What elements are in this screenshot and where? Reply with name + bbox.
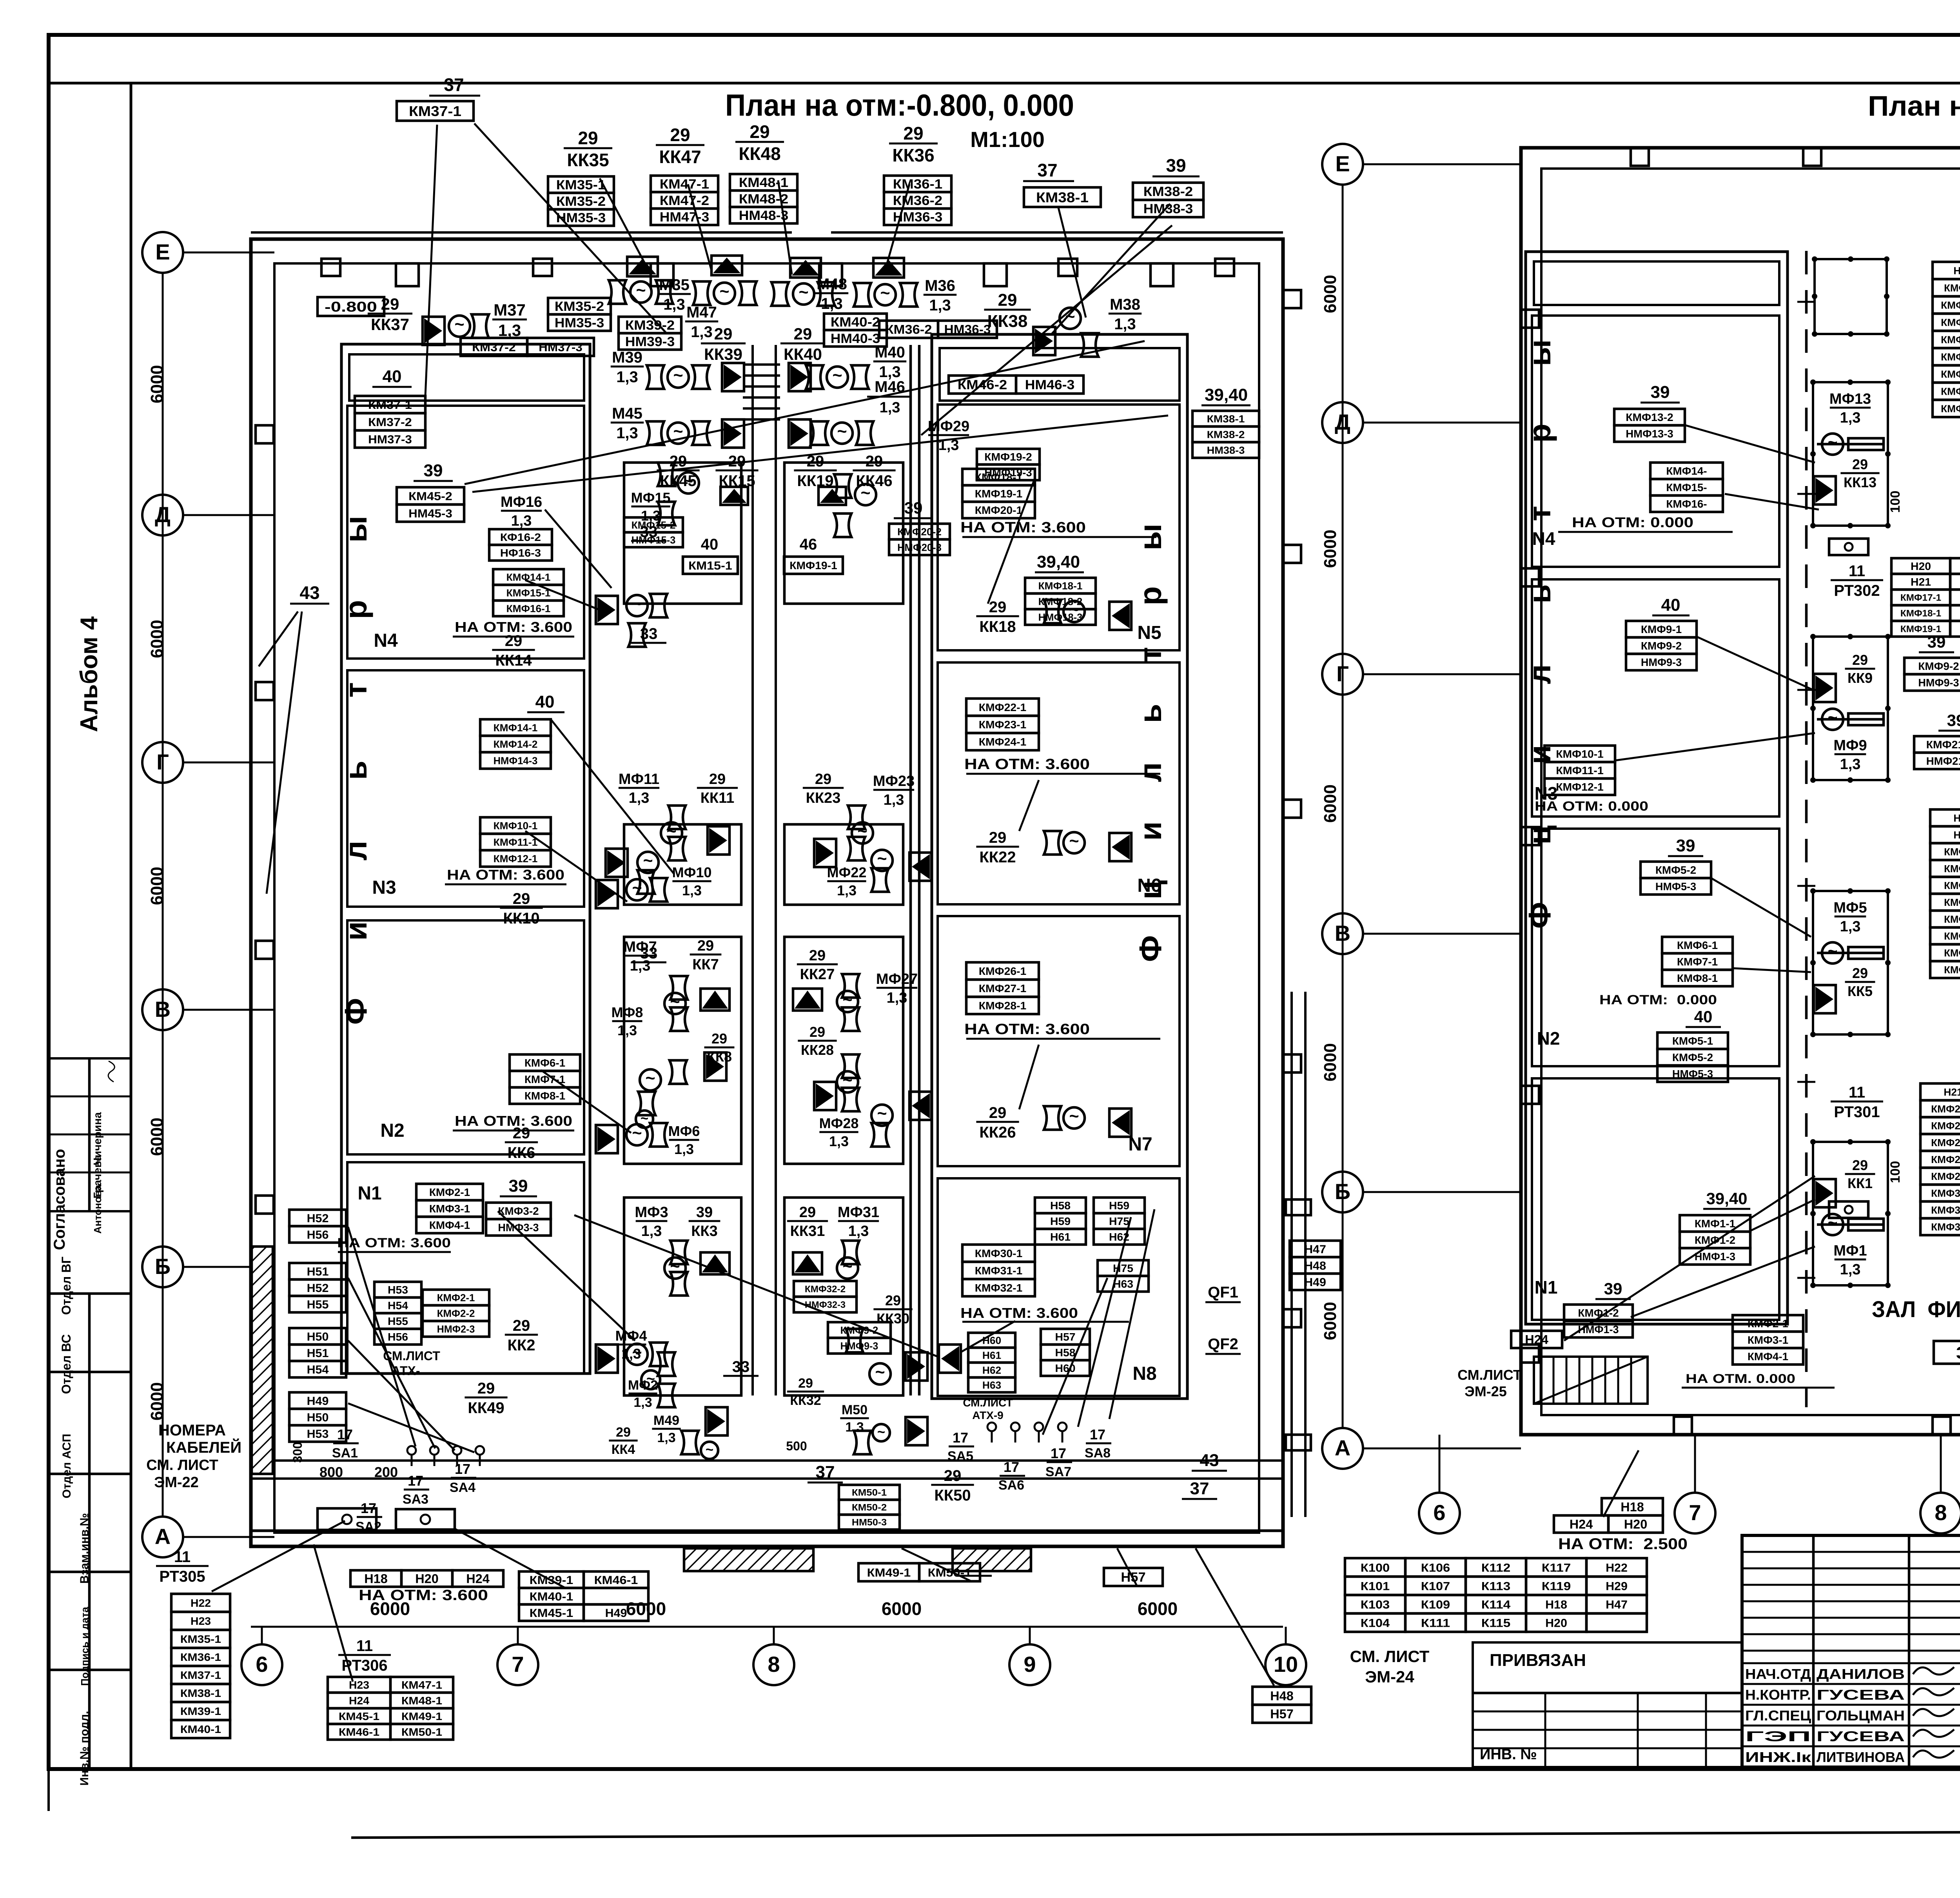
duct rungs stairwell [743,363,780,366]
svg-text:НА ОТМ: 3.600: НА ОТМ: 3.600 [960,519,1086,536]
svg-text:КМФ18-1: КМФ18-1 [1038,580,1083,592]
svg-text:33: 33 [640,945,658,962]
svg-text:Н20: Н20 [1624,1517,1648,1531]
svg-text:КМ38-1: КМ38-1 [180,1687,221,1699]
svg-text:М38: М38 [1110,296,1140,313]
svg-text:М40: М40 [875,344,905,361]
svg-text:~: ~ [719,282,729,301]
svg-text:КМФ20-1: КМФ20-1 [975,504,1023,516]
svg-text:Н56: Н56 [307,1228,329,1241]
svg-text:6000: 6000 [1321,1043,1340,1081]
svg-text:Н60: Н60 [982,1334,1001,1346]
N8 stack KMF30 [962,1245,1035,1262]
svg-text:КК10: КК10 [503,910,539,927]
svg-text:ь: ь [1522,584,1557,603]
svg-text:Н24: Н24 [466,1572,490,1586]
svg-text:КМФ26-1: КМФ26-1 [1931,1120,1960,1132]
svg-text:40: 40 [1694,1007,1713,1026]
svg-text:1,3: 1,3 [617,1022,637,1038]
right plan room N1 [1532,1078,1779,1320]
svg-text:11: 11 [1849,563,1865,580]
svg-text:КМФ31-1: КМФ31-1 [975,1265,1023,1277]
svg-text:т: т [1522,506,1557,521]
inner frame left line [130,83,132,1769]
svg-text:7: 7 [512,1652,524,1677]
svg-text:МФ2: МФ2 [628,1378,658,1393]
plinth outlines corridor [624,824,741,905]
svg-text:10: 10 [1274,1652,1298,1677]
svg-text:КК49: КК49 [468,1399,504,1417]
svg-text:КМ39-2: КМ39-2 [625,318,675,333]
svg-text:6000: 6000 [1321,530,1340,568]
svg-text:Н23: Н23 [191,1615,211,1627]
svg-text:НМФ5-3: НМФ5-3 [1655,880,1696,893]
svg-text:29: 29 [989,829,1007,846]
stack KM50 [839,1485,900,1500]
labels KM40-2 NM40-3 [824,314,887,330]
svg-text:К104: К104 [1361,1617,1390,1629]
svg-text:1,3: 1,3 [1114,316,1136,333]
svg-text:КМФ13-2: КМФ13-2 [1626,411,1673,423]
room N5 [940,348,1180,401]
svg-text:ц: ц [1522,825,1557,844]
svg-text:6000: 6000 [1321,784,1340,823]
svg-text:N2: N2 [1537,1028,1560,1049]
svg-text:6000: 6000 [147,1118,167,1156]
svg-text:КМ36-1: КМ36-1 [893,177,942,192]
filter unit МФ9 [1813,637,1888,780]
svg-text:КМФ28-1: КМФ28-1 [1931,1154,1960,1165]
leader lines right plan [1686,425,1815,463]
svg-text:КМФ3-1: КМФ3-1 [429,1203,470,1215]
svg-text:SA4: SA4 [450,1480,475,1495]
svg-text:МФ10: МФ10 [672,864,712,880]
svg-text:N1: N1 [1535,1277,1558,1297]
svg-text:SA8: SA8 [1085,1446,1111,1461]
svg-text:Н55: Н55 [388,1315,408,1327]
svg-text:КМ36-2: КМ36-2 [893,193,942,208]
svg-text:НА ОТМ: 2.500: НА ОТМ: 2.500 [1558,1535,1688,1553]
right plan grid axis letters [1322,144,1363,185]
svg-text:СМ.ЛИСТ: СМ.ЛИСТ [383,1349,440,1363]
svg-text:К112: К112 [1481,1561,1510,1574]
svg-text:М45: М45 [612,405,642,422]
svg-text:1,3: 1,3 [629,790,650,806]
rp N2 KMF6-8 [1662,937,1733,953]
svg-text:КК38: КК38 [987,312,1028,331]
svg-text:Н56: Н56 [388,1331,408,1343]
svg-text:29: 29 [794,325,812,343]
svg-text:РТ302: РТ302 [1834,582,1880,599]
svg-text:КМФ14-1: КМФ14-1 [494,722,538,733]
svg-text:Н59: Н59 [1050,1215,1071,1227]
svg-text:КМ15-1: КМ15-1 [688,559,732,572]
svg-text:ь: ь [1133,704,1168,723]
svg-text:1,3: 1,3 [887,990,907,1006]
svg-text:КК28: КК28 [801,1042,834,1058]
N5 pumps [1109,602,1131,630]
svg-text:КМФ15-1: КМФ15-1 [1941,385,1960,397]
svg-text:КМФ5-1: КМФ5-1 [1672,1035,1713,1047]
svg-text:МФ9: МФ9 [1833,737,1867,754]
left plan top parapet lines [251,231,792,234]
svg-text:НМ47-3: НМ47-3 [660,210,709,225]
svg-text:29: 29 [750,122,769,142]
svg-text:КМФ9-1: КМФ9-1 [1944,282,1960,294]
svg-text:1,3: 1,3 [1840,756,1861,773]
svg-text:К114: К114 [1481,1598,1511,1611]
svg-text:ы: ы [1522,339,1557,366]
svg-text:39: 39 [509,1176,528,1196]
svg-text:НА ОТМ: 3.600: НА ОТМ: 3.600 [359,1587,488,1604]
svg-text:Н18: Н18 [364,1572,388,1586]
N1 H53 table [374,1282,421,1297]
svg-text:КМФ4-1: КМФ4-1 [1944,896,1960,908]
svg-text:КМФ5-2: КМФ5-2 [1672,1051,1713,1063]
svg-text:КК14: КК14 [495,652,532,669]
svg-text:ь: ь [338,760,373,780]
room N3 [347,670,584,907]
svg-text:29: 29 [809,947,826,964]
right plan rooms header strip [1534,261,1779,305]
svg-text:КМФ10-1: КМФ10-1 [494,820,538,831]
svg-text:33: 33 [640,523,658,541]
N3 stack KMF14 [480,719,551,736]
svg-text:НА ОТМ: 0.000: НА ОТМ: 0.000 [1599,993,1717,1007]
svg-text:~: ~ [1828,433,1837,452]
svg-text:КМФ27-1: КМФ27-1 [979,982,1027,994]
svg-text:КМФ15-: КМФ15- [1666,481,1707,494]
svg-text:КМФ5-1: КМФ5-1 [1944,913,1960,925]
small junction boxes under units row3 [1829,1201,1868,1218]
svg-text:КМ39-1: КМ39-1 [180,1705,221,1717]
svg-text:КК18: КК18 [979,618,1016,635]
leader lines bottom [212,1521,345,1591]
svg-text:НМ35-3: НМ35-3 [556,210,606,225]
N8 H57 H58 H60 [1041,1329,1090,1345]
svg-text:39: 39 [904,499,923,517]
svg-text:КМФ18-1: КМФ18-1 [1900,608,1941,619]
label KM37-2 NM37-3 strip [461,338,527,356]
svg-text:НА ОТМ: 0.000: НА ОТМ: 0.000 [1535,799,1648,814]
svg-text:р: р [338,600,373,619]
svg-text:НА ОТМ. 0.000: НА ОТМ. 0.000 [1686,1372,1795,1386]
svg-text:НМФ5-3: НМФ5-3 [1672,1068,1713,1080]
svg-text:КК2: КК2 [507,1337,535,1354]
svg-text:КМ35-1: КМ35-1 [180,1633,221,1645]
svg-text:Ф: Ф [338,998,373,1025]
svg-text:Отдел ВГ: Отдел ВГ [59,1257,73,1315]
N7 stack KMF26 [966,962,1039,980]
svg-text:~: ~ [454,315,464,334]
svg-text:29: 29 [815,771,831,788]
svg-text:МФ5: МФ5 [1833,900,1867,916]
svg-text:КМФ6-1: КМФ6-1 [1677,939,1718,951]
svg-text:КМФ12-1: КМФ12-1 [494,853,538,864]
svg-text:~: ~ [877,1424,885,1440]
svg-text:SA6: SA6 [998,1478,1024,1493]
svg-text:ИНЖ.Iк: ИНЖ.Iк [1745,1749,1811,1765]
leader lines left plan top [474,123,666,333]
svg-text:39: 39 [696,1204,713,1221]
svg-text:КМФ16-: КМФ16- [1666,498,1707,510]
svg-text:29: 29 [697,938,714,954]
svg-text:План на отм:-0.800, 0.000: План на отм:-0.800, 0.000 [725,88,1074,122]
long thin bottom line [351,1832,1960,1838]
labels KMF19-2 [977,449,1040,465]
svg-text:29: 29 [513,1125,530,1142]
svg-text:100: 100 [1888,1161,1903,1183]
svg-text:М47: М47 [686,304,717,321]
svg-text:КМФ4-1: КМФ4-1 [1748,1350,1788,1363]
svg-text:6000: 6000 [147,867,167,905]
svg-text:КК30: КК30 [877,1310,909,1326]
svg-text:43: 43 [299,582,319,603]
svg-text:КМФ2-2: КМФ2-2 [437,1307,475,1319]
svg-text:29: 29 [998,290,1017,310]
svg-text:SA3: SA3 [403,1492,428,1507]
svg-text:НМ40-3: НМ40-3 [831,331,880,346]
svg-text:Н18: Н18 [1953,812,1960,824]
svg-text:Н58: Н58 [1055,1346,1075,1359]
svg-text:29: 29 [989,1104,1007,1121]
N4 pumps [596,596,618,624]
svg-text:ГОЛЬЦМАН: ГОЛЬЦМАН [1817,1707,1905,1724]
svg-text:Н19: Н19 [1953,265,1960,276]
svg-text:29: 29 [903,123,923,143]
svg-text:КМФ4-1: КМФ4-1 [429,1219,470,1231]
svg-text:6: 6 [1433,1500,1445,1525]
svg-text:КК22: КК22 [979,849,1016,866]
svg-text:Н50: Н50 [307,1411,329,1424]
svg-text:~: ~ [1828,708,1837,727]
svg-text:К113: К113 [1481,1580,1510,1593]
svg-text:N5: N5 [1137,622,1161,643]
svg-text:КК13: КК13 [1844,474,1877,490]
svg-text:КК11: КК11 [701,790,735,806]
label KM46-2 NM46-3 [949,376,1016,394]
svg-text:Н53: Н53 [307,1428,329,1441]
H18 H24 H20 boxes [1602,1498,1663,1515]
svg-text:КМФ10-1: КМФ10-1 [1556,748,1604,760]
svg-text:М49: М49 [653,1413,679,1428]
svg-text:КМФ31-1: КМФ31-1 [1931,1204,1960,1216]
svg-text:КК48: КК48 [739,143,780,164]
svg-text:29: 29 [513,890,530,907]
right plan room N2 [1532,829,1779,1066]
svg-text:КФ16-2: КФ16-2 [500,531,541,543]
table KM49-1 KM50-1 [858,1563,919,1581]
svg-text:КМФ7-1: КМФ7-1 [1677,956,1718,968]
svg-text:Отдел АСП: Отдел АСП [60,1434,73,1499]
svg-text:Н75: Н75 [1109,1215,1129,1227]
left plan wall pilasters [396,263,419,286]
svg-text:~: ~ [877,849,887,868]
svg-text:~: ~ [877,1104,887,1123]
svg-text:КМФ30-1: КМФ30-1 [975,1247,1023,1259]
svg-text:СМ. ЛИСТ: СМ. ЛИСТ [146,1457,218,1473]
H49 H50 H53 boxes [289,1392,346,1409]
svg-text:ГУСЕВА: ГУСЕВА [1817,1728,1905,1744]
svg-text:А: А [1335,1435,1350,1460]
svg-text:29: 29 [798,1376,813,1391]
svg-text:1,3: 1,3 [884,792,904,808]
svg-text:л: л [1133,762,1168,782]
svg-text:КМ47-1: КМ47-1 [401,1679,442,1691]
svg-text:~: ~ [860,484,870,503]
svg-text:Н24: Н24 [1525,1333,1548,1347]
svg-text:SA7: SA7 [1045,1464,1071,1479]
svg-text:17: 17 [1090,1426,1105,1443]
mid table H20 H21 KMF17-24 [1891,558,1950,574]
svg-text:~: ~ [643,851,653,870]
svg-text:КМФ11-1: КМФ11-1 [1941,316,1960,328]
svg-text:Н18: Н18 [1621,1500,1644,1514]
svg-text:КМФ25-1: КМФ25-1 [1931,1103,1960,1115]
svg-text:КМФ8-1: КМФ8-1 [1944,964,1960,976]
svg-text:39,40: 39,40 [1706,1189,1747,1208]
svg-text:Н24: Н24 [349,1695,370,1707]
svg-text:N2: N2 [380,1120,404,1141]
svg-text:11: 11 [174,1548,191,1566]
svg-text:Н49: Н49 [1304,1276,1326,1289]
svg-text:КМ50-1: КМ50-1 [852,1488,887,1498]
svg-text:1,3: 1,3 [511,513,532,529]
svg-text:17: 17 [1051,1445,1066,1461]
svg-text:Н22: Н22 [1606,1561,1628,1574]
svg-text:МФ23: МФ23 [873,773,915,789]
svg-text:КМ36-1: КМ36-1 [180,1651,221,1663]
svg-text:39: 39 [1927,633,1946,651]
svg-text:37: 37 [1190,1479,1209,1498]
svg-text:План на отм: 3.600: План на отм: 3.600 [1868,91,1960,122]
svg-text:~: ~ [880,284,890,303]
right plan left rooms container [1526,252,1788,1324]
svg-text:КМФ23-1: КМФ23-1 [979,719,1027,731]
svg-text:КК35: КК35 [567,150,609,170]
svg-text:МФ3: МФ3 [635,1204,668,1221]
label H24 rp [1511,1331,1562,1348]
svg-text:~: ~ [673,366,683,385]
svg-text:Н49: Н49 [307,1395,329,1408]
svg-text:РТ305: РТ305 [159,1568,205,1585]
svg-text:КМФ2-1: КМФ2-1 [1944,863,1960,875]
svg-text:КМ48-1: КМ48-1 [401,1695,442,1707]
svg-text:11: 11 [356,1637,373,1655]
svg-text:N3: N3 [372,877,396,898]
svg-text:НА ОТМ: 0.000: НА ОТМ: 0.000 [1572,514,1693,530]
svg-text:1,3: 1,3 [633,1395,652,1410]
svg-text:НМФ1-3: НМФ1-3 [1578,1323,1619,1335]
svg-text:МФ22: МФ22 [827,864,867,880]
svg-text:40: 40 [383,367,402,386]
svg-text:КМФ13-1: КМФ13-1 [1941,351,1960,363]
svg-text:КМФ3-2: КМФ3-2 [498,1205,539,1217]
svg-text:~: ~ [636,281,646,300]
svg-text:МФ27: МФ27 [876,971,918,987]
svg-text:КМ50-2: КМ50-2 [852,1502,887,1513]
svg-text:КМФ21-2: КМФ21-2 [1926,739,1960,751]
svg-text:39: 39 [1604,1279,1622,1298]
svg-text:НМФ2-3: НМФ2-3 [437,1323,475,1335]
svg-text:КМ45-1: КМ45-1 [339,1710,379,1722]
left plan inner corridor floor line [251,1459,1283,1462]
svg-text:К109: К109 [1421,1598,1450,1611]
svg-text:НМФ9-3: НМФ9-3 [1641,656,1682,668]
svg-text:SA1: SA1 [332,1446,358,1461]
svg-text:Альбом 4: Альбом 4 [76,616,103,732]
svg-text:НА ОТМ: 3.600: НА ОТМ: 3.600 [447,867,564,883]
svg-text:~: ~ [875,1363,885,1382]
svg-text:КМФ26-1: КМФ26-1 [979,965,1027,977]
row2 MF24 [814,839,836,867]
svg-text:1,3: 1,3 [663,296,685,313]
svg-text:КК32: КК32 [790,1393,821,1408]
top pump row M48 [790,258,821,278]
svg-text:КК3: КК3 [691,1223,718,1239]
svg-text:800: 800 [319,1464,343,1480]
sidebar cell otdel VG [49,1292,131,1295]
table KM39-1 KM46-1 [519,1571,584,1588]
svg-text:СМ.ЛИСТ: СМ.ЛИСТ [963,1397,1013,1409]
svg-text:и: и [338,921,373,940]
svg-text:КМ37-1: КМ37-1 [368,399,412,412]
svg-text:КМФ3-1: КМФ3-1 [1748,1334,1788,1346]
svg-text:Н54: Н54 [388,1299,408,1312]
svg-text:КМФ27-1: КМФ27-1 [1931,1137,1960,1149]
svg-text:СМ. ЛИСТ: СМ. ЛИСТ [1350,1647,1430,1666]
svg-text:Н62: Н62 [982,1364,1001,1376]
svg-text:НМ36-3: НМ36-3 [944,323,991,337]
svg-text:Н48: Н48 [1304,1259,1326,1272]
N4 stack KM37 [355,396,425,413]
tall table H19 KMF9-16 [1933,262,1960,279]
svg-text:17: 17 [953,1430,968,1446]
svg-text:КК50: КК50 [934,1487,971,1504]
svg-text:Н50: Н50 [307,1330,329,1343]
svg-text:39: 39 [1947,711,1960,729]
svg-text:29: 29 [1852,456,1868,472]
svg-text:МФ1: МФ1 [1833,1243,1867,1259]
svg-text:Н59: Н59 [1109,1199,1129,1212]
svg-text:КМ35-1: КМ35-1 [556,178,606,192]
svg-text:КМФ9-2: КМФ9-2 [1918,660,1959,672]
svg-text:НМ45-3: НМ45-3 [408,507,452,520]
svg-text:НМ39-3: НМ39-3 [625,334,675,349]
N1 pumps [596,1345,618,1373]
svg-text:Н52: Н52 [307,1212,329,1225]
svg-text:КМ38-2: КМ38-2 [1207,428,1245,440]
right plan wall pilaster tabs [1631,148,1649,166]
svg-text:29: 29 [885,1292,901,1308]
sidebar cell vzam inv [49,1571,131,1573]
left rooms column container [341,344,590,1374]
svg-text:Антонова: Антонова [92,1185,103,1234]
svg-text:М1:100: М1:100 [970,127,1045,152]
H52 H56 boxes [289,1210,346,1226]
svg-text:А: А [155,1524,171,1549]
N2 pumps [596,1125,618,1153]
svg-text:К101: К101 [1361,1580,1390,1593]
svg-text:SA5: SA5 [947,1449,973,1464]
svg-text:М36: М36 [925,277,955,294]
svg-text:~: ~ [842,1257,852,1276]
svg-text:КК36: КК36 [892,145,934,165]
svg-text:КМ37-1: КМ37-1 [409,103,461,119]
svg-text:40: 40 [535,692,555,711]
svg-text:29: 29 [709,771,726,788]
svg-text:ЗАЛ ФИЛЬТРОВ: ЗАЛ ФИЛЬТРОВ [1872,1297,1960,1322]
